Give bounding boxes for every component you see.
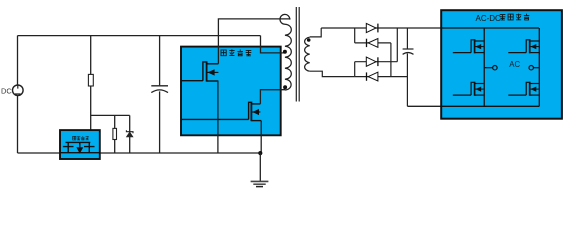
wire D3 cathode rise to + rail — [396, 28, 398, 62]
capacitor C1 — [151, 36, 168, 153]
label 推挽控制 — [221, 49, 251, 56]
wire Q2 source to ground rail — [260, 121, 262, 153]
transistor Q3 (top-left) — [453, 39, 484, 53]
wire left bridge vertical — [483, 28, 485, 106]
transformer T1 secondary winding — [305, 37, 310, 71]
capacitor C2 — [403, 28, 414, 106]
label 启动电路 (startup) — [73, 136, 89, 140]
node DC+ top rail — [18, 35, 261, 37]
wire AC1 leg D1-D2 — [354, 28, 356, 43]
AC output terminal left — [484, 66, 497, 70]
transformer core — [296, 7, 299, 102]
source V1 DC source circle — [12, 85, 23, 96]
wire to ground symbol — [259, 153, 261, 181]
junction dot1 primary tap — [283, 50, 287, 54]
inverter box AC-DC全桥逆变 — [441, 10, 562, 119]
wire D2 to D4 drop — [390, 43, 392, 77]
transistor Q2 (lower MOSFET) — [181, 102, 261, 122]
wire Q1 drain to transformer top — [218, 19, 289, 64]
diode D1 — [366, 23, 378, 32]
node rectifier - rail — [407, 105, 539, 107]
wire left rail lower — [17, 96, 19, 153]
transistor Q5 (top-right) — [508, 39, 539, 53]
diode D2 — [367, 39, 378, 48]
wire rail through startup box — [60, 152, 100, 154]
label AC-DC全桥逆变 — [476, 14, 530, 23]
wire Q1 source down — [217, 81, 219, 153]
zener diode ZD1 — [126, 115, 133, 153]
svg-text:AC: AC — [509, 60, 520, 69]
wire AC2 leg D3-D4 — [354, 62, 356, 77]
wire secondary top route — [310, 28, 322, 37]
startup device symbol — [63, 142, 95, 153]
wire + rail re-draw inside box — [441, 27, 539, 29]
transistor Q1 (upper MOSFET) — [181, 61, 218, 81]
AC output terminal right — [529, 66, 539, 70]
diode D4 — [367, 72, 378, 81]
wire below R1 — [90, 86, 92, 144]
transformer T1 primary winding — [280, 14, 291, 90]
wire right bridge vertical — [538, 28, 540, 106]
node rectifier + rail — [321, 27, 539, 29]
junction dot2 primary bottom — [283, 85, 287, 89]
phase dot secondary — [307, 38, 311, 42]
svg-text:DC: DC — [1, 86, 12, 95]
junction dot ground node — [258, 151, 262, 155]
resistor R2 — [113, 115, 117, 153]
transistor Q6 (bottom-right) — [508, 82, 539, 96]
wire left rail — [17, 36, 19, 85]
wire D2 row — [355, 42, 391, 44]
resistor R1 — [88, 74, 93, 86]
wire V+ to primary tap dot1 — [261, 36, 285, 53]
ground — [251, 181, 269, 186]
push-pull control box 推挽控制 — [181, 47, 281, 136]
wire secondary bottom route — [310, 71, 355, 76]
wire Q2 drain to primary bottom — [260, 90, 285, 104]
wire - rail re-draw inside box — [441, 105, 539, 107]
startup circuit box — [60, 130, 100, 159]
wire D3 row — [355, 61, 398, 63]
node ground bottom rail — [18, 152, 261, 154]
transistor Q4 (bottom-left) — [453, 82, 484, 96]
diode D3 — [366, 57, 378, 66]
wire branch horizontal — [91, 114, 130, 116]
wire D4 row — [355, 76, 408, 78]
wire startup branch vertical — [90, 36, 92, 75]
svg-text:AC-DC: AC-DC — [476, 14, 502, 23]
